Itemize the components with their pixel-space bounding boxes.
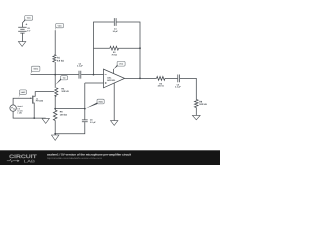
svg-text:VMIC: VMIC bbox=[33, 68, 38, 71]
svg-text:1 kHz: 1 kHz bbox=[17, 112, 22, 115]
svg-text:49.9 Ω: 49.9 Ω bbox=[158, 85, 164, 88]
svg-text:http://circuitlab.com/c/a8w4e6: http://circuitlab.com/c/a8w4e6/5v-versio… bbox=[47, 157, 103, 160]
svg-text:9.9 kΩ: 9.9 kΩ bbox=[57, 59, 64, 62]
svg-text:MCP601: MCP601 bbox=[107, 79, 116, 82]
svg-text:VMIC: VMIC bbox=[21, 91, 26, 94]
svg-text:2.2 µF: 2.2 µF bbox=[77, 65, 83, 68]
svg-text:2.2 µF: 2.2 µF bbox=[175, 86, 181, 89]
svg-text:75 kΩ: 75 kΩ bbox=[111, 53, 117, 56]
svg-text:10 µF: 10 µF bbox=[113, 30, 119, 33]
svg-text:PF5102: PF5102 bbox=[36, 100, 44, 103]
svg-text:VCC: VCC bbox=[27, 17, 32, 20]
svg-text:100 kΩ: 100 kΩ bbox=[61, 90, 68, 93]
svg-text:100 kΩ: 100 kΩ bbox=[60, 113, 67, 116]
svg-text:LAB: LAB bbox=[24, 160, 36, 164]
svg-text:100 kΩ: 100 kΩ bbox=[199, 103, 207, 106]
svg-text:VMID: VMID bbox=[98, 100, 103, 103]
svg-text:VCC: VCC bbox=[58, 24, 63, 27]
svg-text:VCC: VCC bbox=[119, 62, 124, 65]
svg-text:asalem1 / 5V version of the mi: asalem1 / 5V version of the microphone p… bbox=[47, 152, 131, 156]
svg-text:2.2 µF: 2.2 µF bbox=[90, 121, 96, 124]
